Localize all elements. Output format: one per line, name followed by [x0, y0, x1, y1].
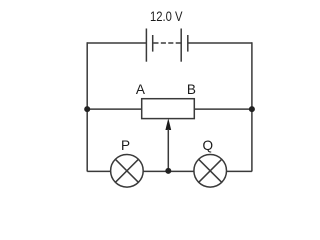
- wire right vertical: [251, 42, 253, 171]
- node junction left: [84, 106, 90, 112]
- battery B1 long plate (cell 1): [145, 29, 147, 62]
- wiper arrowhead: [165, 118, 171, 130]
- potentiometer track AB: [142, 99, 195, 119]
- battery B1 short plate (cell 1): [152, 35, 154, 52]
- svg-text:A: A: [136, 82, 146, 97]
- wire top-left segment: [87, 42, 146, 44]
- wire left vertical: [86, 42, 88, 171]
- battery B1 long plate (cell 2): [180, 29, 182, 62]
- wiper wire: [167, 129, 169, 171]
- wire top-right segment: [188, 42, 252, 44]
- svg-text:B: B: [187, 82, 196, 97]
- svg-text:12.0 V: 12.0 V: [150, 9, 183, 24]
- node junction right: [249, 106, 255, 112]
- svg-text:P: P: [121, 138, 130, 153]
- svg-text:Q: Q: [203, 138, 214, 153]
- node junction wiper-bottom: [165, 168, 171, 174]
- lamp P: [111, 155, 144, 188]
- wire bottom: [87, 170, 252, 172]
- wire pot track right: [194, 108, 252, 110]
- battery dashed link (omitted cells): [153, 42, 181, 44]
- lamp Q: [194, 155, 227, 188]
- battery B1 short plate (cell 2): [187, 35, 189, 52]
- wire pot track left: [87, 108, 142, 110]
